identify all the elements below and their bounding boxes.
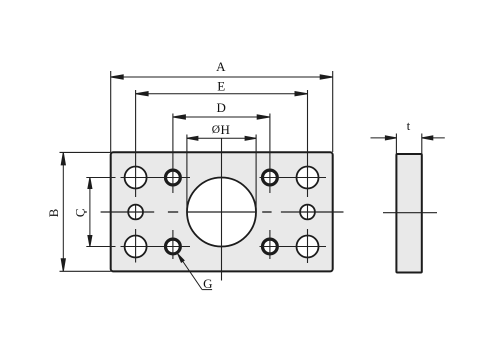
svg-text:B: B (46, 208, 61, 217)
svg-text:t: t (407, 118, 411, 133)
svg-text:ØH: ØH (212, 122, 230, 137)
svg-text:G: G (203, 276, 212, 291)
svg-text:C: C (72, 208, 87, 217)
svg-text:D: D (217, 100, 226, 115)
svg-text:A: A (216, 59, 226, 74)
svg-text:E: E (217, 78, 225, 93)
